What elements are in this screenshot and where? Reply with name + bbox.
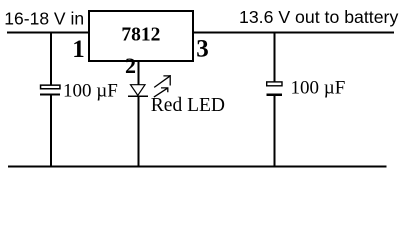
LED D1 cathode bar bbox=[128, 95, 148, 97]
capacitor C2 bottom plate bbox=[267, 94, 283, 96]
wire input to pin 1 bbox=[7, 32, 89, 34]
svg-text:2: 2 bbox=[125, 53, 136, 78]
svg-text:7812: 7812 bbox=[121, 25, 160, 46]
LED light arrow 2 shaft bbox=[154, 88, 167, 97]
wire C2 top lead bbox=[274, 32, 276, 82]
svg-text:16-18 V in: 16-18 V in bbox=[4, 9, 84, 29]
svg-text:3: 3 bbox=[196, 35, 209, 62]
capacitor C1 bottom plate bbox=[40, 93, 60, 95]
wire C2 bottom lead bbox=[274, 96, 276, 167]
wire pin 2 lead bbox=[138, 60, 140, 85]
svg-text:1: 1 bbox=[72, 36, 85, 63]
LED light arrow 1 head bbox=[163, 75, 170, 86]
wire C1 bottom lead bbox=[50, 96, 52, 168]
svg-text:13.6 V out to battery: 13.6 V out to battery bbox=[239, 7, 398, 27]
capacitor C2 top plate bbox=[267, 82, 282, 86]
LED light arrow 1 shaft bbox=[154, 76, 170, 87]
capacitor C1 top plate bbox=[41, 85, 60, 89]
svg-text:100 µF: 100 µF bbox=[291, 78, 346, 99]
regulator U1 body bbox=[89, 11, 193, 61]
svg-text:Red LED: Red LED bbox=[151, 95, 225, 116]
ground rail wire bbox=[8, 166, 387, 168]
LED D1 triangle bbox=[131, 85, 146, 96]
wire LED bottom lead bbox=[138, 97, 140, 168]
svg-text:100 µF: 100 µF bbox=[63, 81, 118, 102]
LED light arrow 2 head bbox=[161, 87, 168, 92]
wire C1 top lead bbox=[50, 32, 52, 85]
wire pin 3 to output bbox=[192, 32, 394, 34]
